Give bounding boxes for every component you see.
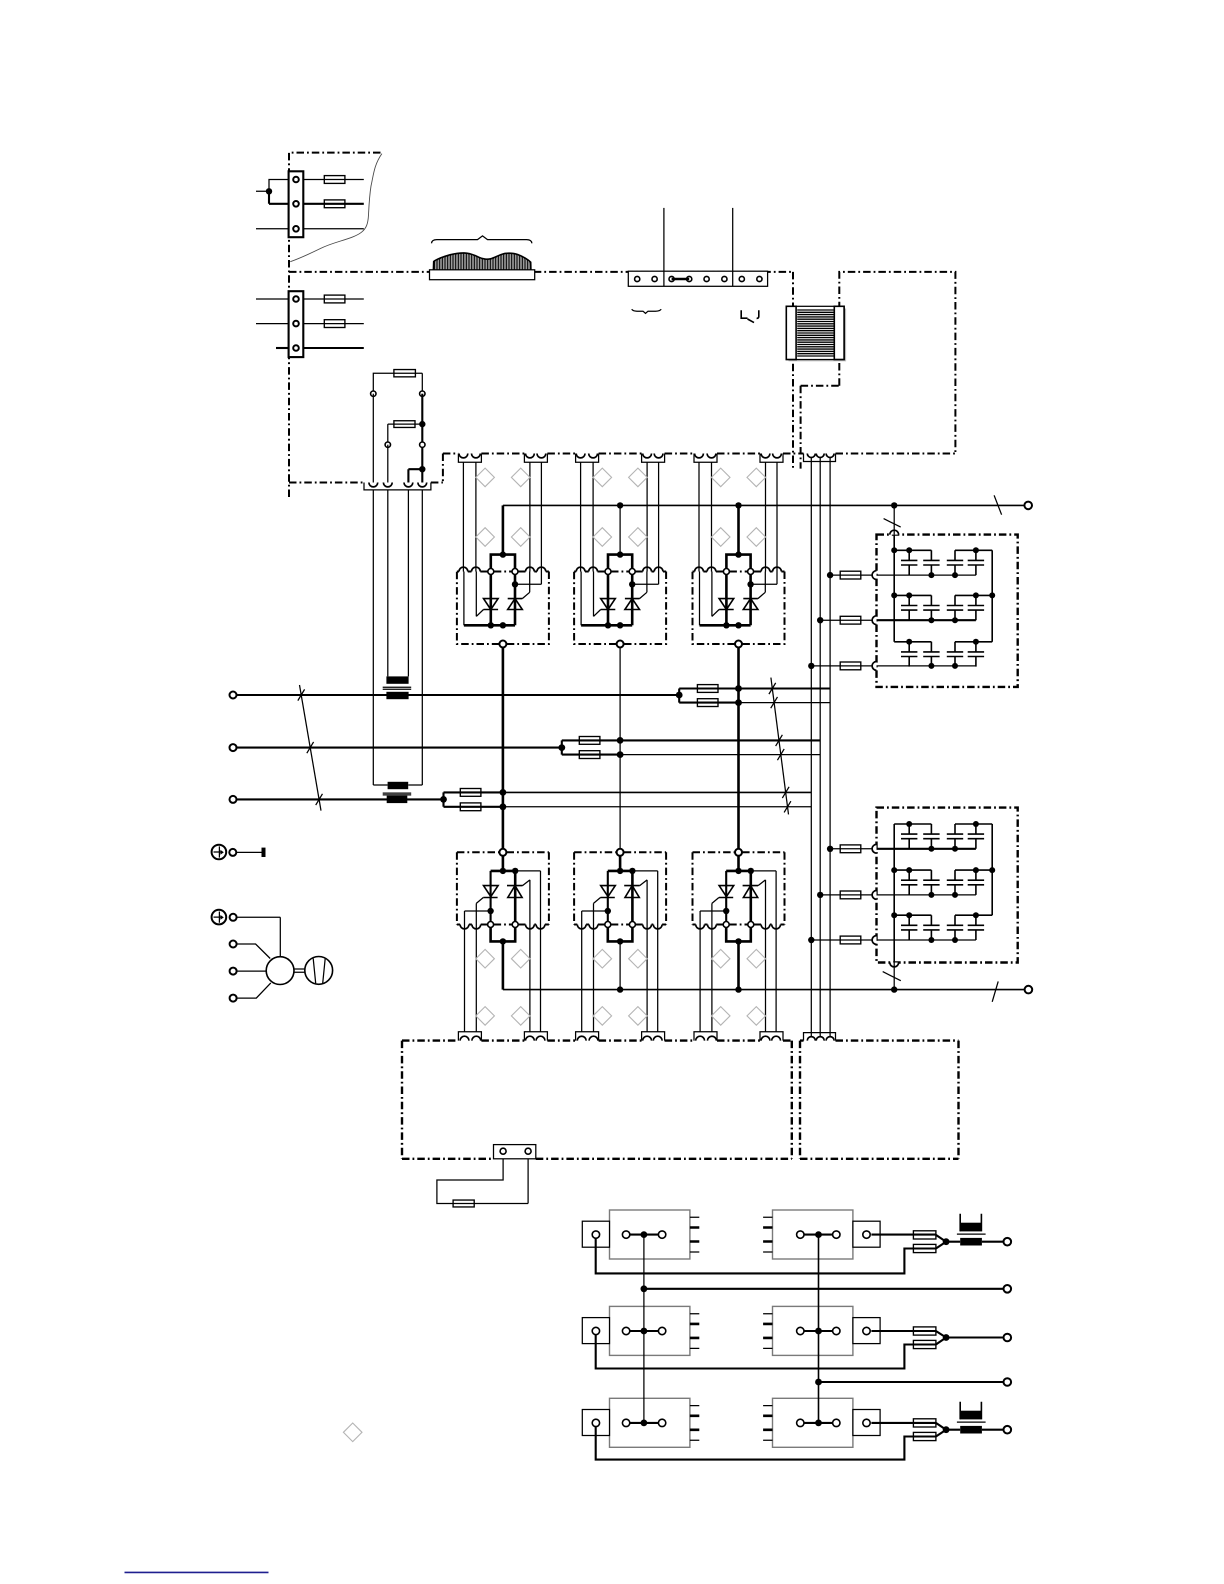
terminal PE2: [230, 914, 237, 921]
stem V4 to bus: [502, 941, 505, 989]
damping resistor R12 (C1 row 2): [820, 616, 872, 624]
junction F8/V2: [617, 751, 624, 758]
CT2 core lines: [383, 793, 412, 795]
fuse F10: [460, 803, 481, 811]
bonding bar: [262, 848, 266, 857]
row 3 wire from left block: [596, 1427, 936, 1460]
damping resistor R22 (C2 row 2): [820, 891, 872, 899]
heatsink fin profile: [433, 250, 531, 270]
connector bumps V5 right pair: [643, 1036, 652, 1040]
C2 feed slash: [883, 972, 901, 981]
thyristor module V6: [693, 849, 785, 945]
stem V5 to bus: [619, 941, 621, 989]
connector bracket V5 right pair: [642, 1032, 665, 1041]
tick branch L1a: [769, 683, 776, 694]
accessory mark below strip (contact): [741, 310, 759, 322]
row 1 wire from left block: [596, 1238, 936, 1273]
diamond markers above module V2: [593, 468, 612, 487]
snubber feeder wire C (phase L1): [829, 458, 831, 1036]
fuse F23a: [913, 1419, 936, 1427]
snubber bank C1 row 1 capacitors: [901, 550, 984, 575]
branch L3 lower to snubber bus: [503, 806, 811, 808]
tick branch L2b: [777, 749, 784, 760]
connector bumps V4 left pair: [460, 1036, 469, 1040]
junction L2 fuse split: [558, 744, 565, 751]
tick on L3: [316, 794, 323, 805]
thyristor module V5: [574, 849, 666, 945]
wire X2:3 stub: [303, 347, 364, 349]
C1 feed slash: [884, 519, 901, 528]
snubber bank C2 row 2 line: [877, 894, 976, 896]
junction R2 to bold wire: [419, 421, 425, 427]
upper bus terminal: [1024, 502, 1032, 510]
connector bumps V2 right pair: [643, 454, 652, 458]
branch L2 upper to snubber bus: [620, 739, 820, 741]
connector bracket V3 left pair: [694, 454, 717, 463]
junction snubber tap / upper bus: [891, 502, 897, 508]
branch L1 lower to snubber bus: [739, 702, 831, 704]
junction row 1 merge: [943, 1238, 950, 1245]
phase input terminal L2: [230, 744, 237, 751]
connector bracket V2 left pair: [576, 454, 599, 463]
L2 split bracket: [562, 740, 620, 754]
snubber bank C1 entry vertical: [893, 535, 895, 642]
junction right link / bus B: [815, 1379, 822, 1386]
CT1 core lines: [383, 687, 412, 689]
CT2 primary bar on phase L3: [387, 796, 408, 803]
junction bold corner: [419, 466, 425, 472]
enclosure power unit main lower boundary with connector jog: [443, 453, 956, 455]
snubber bank C2 row 1 rails: [894, 823, 992, 825]
wire to X2:1: [256, 298, 289, 300]
snubber bank C1 enclosure: [877, 535, 1018, 687]
connector bracket V5 left pair: [576, 1032, 599, 1041]
stem V3 to bus: [737, 505, 740, 554]
gate/cathode wires module V2: [581, 462, 659, 571]
snubber bank C1 junction dots: [891, 547, 995, 669]
connector bumps V3 right pair: [761, 454, 770, 458]
connector circle R2 leg: [385, 442, 390, 447]
brace over heatsink: [432, 236, 532, 243]
driver block A2: [763, 1210, 880, 1259]
fuse F3: [303, 295, 364, 303]
tick on L2: [307, 742, 314, 753]
thyristor module V4: [457, 849, 549, 945]
current transformer CT2 winding bar: [388, 782, 409, 789]
row 2 wire from right block: [871, 1330, 936, 1332]
junction F7/V2: [617, 737, 624, 744]
snubber bank C1 row 3 rails: [894, 641, 992, 643]
wire to X1:3: [256, 228, 289, 230]
motor wire V: [237, 970, 267, 972]
diamond marker bottom left: [343, 1423, 362, 1442]
row 3 wire to terminal: [946, 1429, 1003, 1431]
fuse F7: [579, 737, 600, 745]
connector bumps on CT bar: [369, 483, 378, 487]
junction snubber tap / lower bus: [891, 986, 897, 992]
fuse F8: [579, 751, 600, 759]
branch L2 lower to snubber bus: [620, 754, 820, 756]
wire stub above X3 terminal 7: [732, 208, 734, 271]
motor terminal U: [230, 941, 237, 948]
connector bracket V6 left pair: [694, 1032, 717, 1041]
junction F9/V1: [500, 789, 507, 796]
damping resistor R11 (C1 row 1): [830, 571, 872, 579]
diamond markers above module V1: [476, 468, 495, 487]
resistor R2: [394, 421, 415, 428]
damping resistor R23 (C2 row 3): [811, 936, 872, 944]
bus B to terminal: [819, 1381, 1004, 1383]
row 3 wire from right block: [871, 1422, 936, 1424]
snubber bank C1 row 2 rails: [894, 594, 992, 596]
branch L1 upper to snubber bus: [739, 687, 831, 689]
CT1 primary bar on phase L1: [386, 692, 408, 699]
snubber bank C2 row 2 rails: [894, 869, 992, 871]
snubber bank C1 row 2 capacitors: [901, 595, 984, 620]
phase leg V3-V6: [737, 644, 740, 852]
junction R23 on feeder: [808, 937, 814, 943]
wire to X2:2: [256, 323, 289, 325]
bold wire lower leg: [421, 469, 423, 482]
junction left link / bus A: [641, 1285, 648, 1292]
bus A to terminal: [644, 1288, 1004, 1290]
junction F5/V3: [735, 685, 742, 692]
junction V3 stem / upper bus: [735, 502, 741, 508]
PE1 bonding wire: [236, 851, 262, 853]
snubber bank C2 row 1 capacitors: [901, 824, 984, 849]
junction row 2 merge: [943, 1334, 950, 1341]
row 2 output terminal: [1004, 1334, 1012, 1342]
loop resistor R3 wiring: [437, 1159, 528, 1204]
driver block A4: [763, 1306, 880, 1355]
thyristor module V3: [693, 551, 785, 647]
motor PE wire: [237, 917, 281, 956]
feeder bracket bottom: [804, 1033, 836, 1041]
wire X1:3 stub: [303, 228, 364, 230]
phase leg V1-V4: [502, 644, 505, 852]
snubber feeder wire A (phase L3): [810, 458, 812, 1036]
current transformer CT1 winding bar: [386, 676, 408, 683]
fuse F21b: [913, 1244, 936, 1252]
connector bumps V5 left pair: [577, 1036, 586, 1040]
row 1 wire to terminal: [946, 1241, 1003, 1243]
junction L3 fuse split: [440, 796, 447, 803]
junction V5 stem / lower bus: [617, 986, 623, 992]
connector bumps V6 right pair: [761, 1036, 770, 1040]
phase line L2: [237, 747, 562, 749]
accessory mark below strip (brace): [632, 309, 662, 313]
stem V6 to bus: [737, 941, 740, 989]
wire to X2:3: [276, 347, 289, 349]
upper DC bus: [503, 504, 1028, 506]
right sense wire (bold): [421, 394, 423, 424]
fuse F1: [303, 176, 364, 184]
fuse F21a: [913, 1231, 936, 1239]
phase input terminal L3: [230, 796, 237, 803]
feeder bumps bottom: [807, 1037, 815, 1041]
bus B terminal: [1004, 1378, 1012, 1386]
junction F10/V1: [500, 803, 507, 810]
snubber bank C1 row 1 rails: [894, 549, 992, 551]
snubber bank C1 feed from bus: [893, 505, 895, 534]
junction R12 on feeder: [817, 617, 823, 623]
diamond markers below module V5: [593, 949, 612, 968]
motor terminal W: [230, 995, 237, 1002]
row 2 wire to terminal: [946, 1336, 1003, 1338]
loop resistor R3: [453, 1200, 474, 1207]
motor wire U: [237, 944, 271, 959]
row 3 output terminal: [1004, 1426, 1012, 1434]
diamond markers below module V4: [476, 949, 495, 968]
enclosure power unit top edge: [289, 271, 793, 273]
stem V2 to bus: [619, 505, 621, 554]
motor wire W: [237, 983, 271, 998]
connector bumps V6 left pair: [696, 1036, 705, 1040]
connector bumps V1 right pair: [526, 454, 535, 458]
wire to X1:1: [256, 180, 289, 192]
snubber bank C1 row 3 line: [877, 665, 976, 667]
wire stub above X3 terminal 3: [663, 208, 665, 271]
thyristor module V1: [457, 551, 549, 647]
bold corner to second pin: [408, 469, 422, 482]
terminal block X1: [289, 171, 304, 237]
connector bracket V1 right pair: [524, 454, 547, 463]
line group slash (input side): [300, 685, 322, 811]
enclosure bottom auxiliary box (right): [800, 1041, 959, 1159]
snubber bank C1 row 1 line: [877, 574, 976, 576]
damping resistor R13 (C1 row 3): [811, 662, 872, 670]
gate/cathode wires module V5: [582, 925, 658, 1032]
bold wire mid section: [421, 424, 423, 469]
fuse F22b: [913, 1340, 936, 1348]
connector circle on left sense wire: [371, 391, 376, 396]
connector bracket V3 right pair: [760, 454, 783, 463]
line filter choke L1: [957, 1214, 986, 1246]
CT1 secondary wires: [388, 490, 409, 677]
snubber feeder wire B (phase L2): [819, 458, 821, 1036]
earth symbol PE1: [212, 845, 227, 860]
fan impeller: [305, 957, 333, 985]
row 3 fuse merge: [936, 1423, 946, 1437]
CT2 secondary wires: [373, 490, 422, 785]
fuse F23b: [913, 1432, 936, 1440]
gate/cathode wires module V1: [463, 462, 541, 571]
right column link wire: [818, 1235, 820, 1423]
tick branch L3b: [784, 801, 791, 812]
R2 left leg down: [387, 424, 389, 445]
resistor R2 branch: [388, 423, 423, 425]
fuse F5: [697, 685, 718, 693]
snubber bank C1 entry bumps: [872, 530, 898, 670]
snubber bank C2 enclosure: [877, 808, 1018, 963]
row 2 fuse merge: [936, 1331, 946, 1345]
motor terminal V: [230, 968, 237, 975]
upper bus slash: [994, 495, 1002, 514]
fuse F4: [303, 320, 364, 328]
snubber bank C1 row 2 line: [877, 619, 976, 621]
driver block A6: [763, 1398, 880, 1447]
junction on X1 feed: [266, 188, 272, 194]
driver block A3: [582, 1306, 699, 1355]
fuse F22a: [913, 1327, 936, 1335]
terminal block X4 on gate-driver box: [494, 1145, 536, 1159]
snubber bank C2 junction dots: [891, 821, 995, 943]
connector bumps V3 left pair: [695, 454, 704, 458]
line filter choke L3: [957, 1402, 986, 1434]
connector bumps V1 left pair: [459, 454, 468, 458]
connector bumps V2 left pair: [576, 454, 585, 458]
tick branch L2a: [776, 735, 783, 746]
snubber bank C2 row 2 capacitors: [901, 870, 984, 895]
row 1 fuse merge: [936, 1235, 946, 1249]
jumper link X3 3-4: [672, 278, 690, 281]
CT connector bar: [364, 483, 431, 490]
heatsink base bar: [430, 270, 535, 280]
fuse F2: [303, 200, 364, 208]
transformer T1: [786, 306, 846, 361]
connector bracket V6 right pair: [760, 1032, 783, 1041]
enclosure bottom gate-driver box (left): [402, 1039, 792, 1041]
R2 leg to connector: [387, 445, 389, 483]
junction R13 on feeder: [808, 663, 814, 669]
connector bumps V4 right pair: [526, 1036, 535, 1040]
earth symbol PE2: [212, 910, 227, 925]
diamond markers below module V6: [711, 949, 730, 968]
feeder bumps top: [807, 454, 815, 458]
snubber bank C2 entry bumps: [872, 844, 899, 966]
fuse F9: [460, 789, 481, 797]
terminal PE1: [229, 849, 236, 856]
snubber bank C2 feed from bus: [893, 963, 895, 990]
phase input terminal L1: [230, 692, 237, 699]
connector bracket V1 left pair: [458, 454, 481, 463]
lower DC bus: [503, 989, 1029, 991]
snubber bank C1 row 3 capacitors: [901, 642, 984, 667]
junction F6/V3: [735, 699, 742, 706]
gate/cathode wires module V6: [700, 925, 776, 1032]
fan motor M1: [266, 957, 294, 985]
tick on L1: [298, 689, 305, 700]
snubber bank C2 row 1 line: [877, 848, 976, 850]
connector circle bold wire: [420, 442, 425, 447]
L3 split bracket: [444, 792, 503, 806]
stem V1 to bus: [502, 505, 505, 554]
left sense wire: [372, 394, 374, 483]
junction R22 on feeder: [817, 892, 823, 898]
wire to X1:2: [269, 191, 289, 204]
resistor R1: [394, 370, 416, 377]
snubber bank C1 right link vertical: [991, 550, 993, 642]
junction R11 on feeder: [827, 572, 833, 578]
tick branch L1b: [771, 697, 778, 708]
terminal block X2: [289, 291, 304, 357]
junction V6 stem / lower bus: [735, 986, 741, 992]
gate/cathode wires module V3: [699, 462, 777, 571]
row 2 wire from left block: [596, 1335, 936, 1369]
junction row 3 merge: [943, 1426, 950, 1433]
resistor R1 network top rail: [373, 373, 422, 394]
hyperlink underline artifact: [125, 1571, 269, 1573]
snubber bank C2 row 3 line: [877, 939, 976, 941]
damping resistor R21 (C2 row 1): [830, 845, 872, 853]
motor shaft: [294, 969, 306, 972]
fuse F6: [697, 699, 718, 707]
tick branch L3a: [782, 787, 789, 798]
junction V2 stem / upper bus: [617, 502, 623, 508]
driver block A1: [582, 1210, 699, 1259]
phase leg V2-V5: [619, 644, 621, 852]
snubber bank C2 right link vertical: [991, 824, 993, 915]
diamond markers above module V3: [711, 468, 730, 487]
left column link wire: [643, 1235, 645, 1423]
bus A terminal: [1004, 1285, 1012, 1293]
junction L1 fuse split: [676, 692, 683, 699]
thyristor module V2: [574, 551, 666, 647]
feeder bracket top: [804, 454, 836, 462]
connector circle on right sense wire: [420, 391, 425, 396]
enclosure power unit boundary below transformer (right): [801, 386, 840, 469]
L1 split bracket: [679, 689, 738, 703]
lower bus slash: [992, 981, 998, 1001]
line group slash (module side): [771, 678, 789, 815]
phase line L3: [237, 798, 444, 800]
enclosure top-left control unit (torn outline): [289, 153, 382, 497]
driver block A5: [582, 1398, 699, 1447]
row 1 output terminal: [1004, 1238, 1012, 1246]
snubber bank C2 row 3 capacitors: [901, 915, 984, 940]
connector bracket V4 left pair: [458, 1032, 481, 1041]
phase line L1: [237, 694, 680, 696]
row 1 wire from right block: [871, 1234, 936, 1236]
terminal strip X3: [628, 271, 767, 286]
lower bus terminal: [1025, 986, 1033, 994]
snubber bank C2 row 3 rails: [894, 914, 992, 916]
snubber bank C2 entry vertical: [893, 824, 895, 963]
gate/cathode wires module V4: [465, 925, 541, 1032]
junction R21 on feeder: [827, 846, 833, 852]
connector bracket V4 right pair: [524, 1032, 547, 1041]
enclosure right auxiliary box: [839, 272, 955, 454]
connector bracket V2 right pair: [642, 454, 665, 463]
branch L3 upper to snubber bus: [503, 791, 811, 793]
enclosure power unit boundary below transformer (left): [792, 272, 794, 469]
